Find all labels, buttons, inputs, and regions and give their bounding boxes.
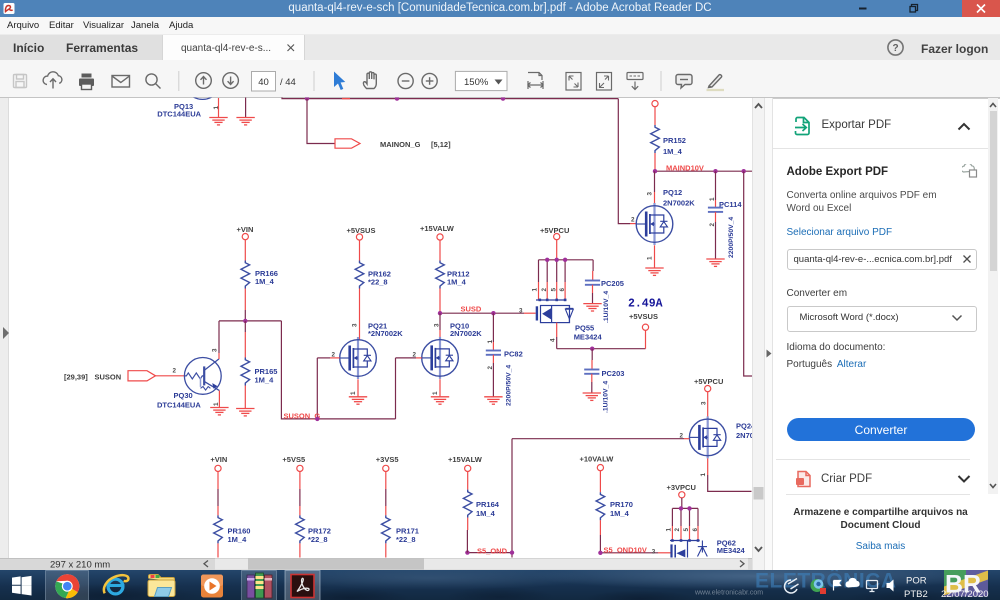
transistor PQ62 ME3424 (clipped at bottom) [665,528,745,558]
file input [787,249,977,270]
svg-text:PC205: PC205 [601,279,624,288]
power +5VPCU node (lower) [694,377,723,392]
wire MAINON_G branch [307,99,335,144]
zoom box [455,71,507,90]
minus circle [398,73,413,88]
window title bar [0,0,1000,17]
wire to ground [245,98,247,118]
fullscreen icon [597,73,612,91]
wire [217,472,219,516]
svg-text:S5_OND: S5_OND [477,546,508,555]
tray icons [785,577,894,593]
svg-text:*2N7002K: *2N7002K [368,329,403,338]
svg-text:22/07/2020: 22/07/2020 [941,589,989,600]
svg-text:[29,39]: [29,39] [64,372,88,381]
wire net S5_OND10V [600,545,671,555]
menu bar [0,17,1000,35]
wire [439,313,441,340]
svg-text:PR170: PR170 [610,500,633,509]
Criar PDF row [795,470,813,488]
svg-text:2N7002K: 2N7002K [663,199,695,208]
svg-text:PTB2: PTB2 [904,589,928,600]
transistor PQ24 2N7002K [680,416,769,476]
svg-text:+15VALW: +15VALW [448,455,483,464]
resistor PR172 *22_8 [296,515,331,543]
wire [244,386,246,409]
node junction [679,506,683,510]
wire net MAIND10V [655,163,753,172]
svg-text:1M_4: 1M_4 [663,147,683,156]
svg-text:1: 1 [647,256,654,260]
svg-text:1: 1 [700,473,707,477]
transistor PQ12 2N7002K [631,171,695,268]
scrolling mode icon [627,73,643,80]
wire net SUSD [440,304,536,314]
wire [439,240,441,260]
footer [773,506,989,533]
folder [148,574,175,596]
transistor PQ21 *2N7002K [332,321,404,397]
svg-text:3: 3 [212,348,219,352]
search [146,74,157,85]
wire [599,520,601,553]
node junction [598,551,602,555]
printer [79,74,94,90]
resistor PR160 1M_4 [214,515,251,543]
svg-text:PQ30: PQ30 [174,391,193,400]
svg-text:1: 1 [213,106,220,110]
wire [156,368,185,376]
svg-text:+5VS5: +5VS5 [282,455,305,464]
capacitor PC205 .1U/10V_4 [585,260,624,323]
svg-text:3: 3 [652,548,656,555]
svg-text:1M_4: 1M_4 [610,509,630,518]
save (disabled) [14,75,27,88]
svg-text:6: 6 [692,528,699,532]
power +15VALW node [420,224,455,240]
svg-text:2N7002K: 2N7002K [450,329,482,338]
Exportar PDF header [794,116,816,138]
wire PQ12 gate [618,99,636,224]
node junction [305,96,309,100]
right panel [773,98,1000,570]
ground (PQ30 emitter) [210,408,228,415]
svg-text:PQ12: PQ12 [663,188,682,197]
wire PQ21 gate [317,357,339,359]
svg-text:[5,12]: [5,12] [431,140,451,149]
ground (PQ13 emitter) [209,98,227,125]
node junction [510,550,514,554]
svg-text:5: 5 [551,288,558,292]
svg-text:PR164: PR164 [476,500,500,509]
node SUSON input port [64,371,156,382]
node junction [555,258,559,262]
select pointer [334,72,345,91]
dropdown [787,306,977,332]
svg-text:+15VALW: +15VALW [420,224,455,233]
svg-text:+5VPCU: +5VPCU [694,377,723,386]
wire [299,543,301,557]
node junction [243,319,247,323]
start [12,575,32,595]
Converter button [787,418,975,442]
svg-text:+5VSUS: +5VSUS [629,312,658,321]
svg-text:PQ55: PQ55 [575,324,594,333]
power +5VPCU node [540,226,569,240]
svg-text:1M_4: 1M_4 [255,277,275,286]
wire [244,240,246,261]
hand [363,72,376,89]
node junction [713,169,717,173]
wire [700,392,707,417]
svg-text:1: 1 [665,528,672,532]
resistor PR166 1M_4 [241,261,278,289]
wire [556,240,558,260]
power +VIN node [237,225,254,240]
svg-text:1: 1 [350,391,357,395]
transistor PQ55 ME3424 [532,288,603,349]
svg-text:+3VPCU: +3VPCU [667,483,696,492]
cloud upload [43,72,62,85]
svg-text:2: 2 [631,217,635,224]
svg-text:6: 6 [559,288,566,292]
plus circle [422,73,437,88]
svg-text:ME3424: ME3424 [717,546,746,555]
ground [236,118,254,125]
ground (PC114) [706,259,724,266]
wire [654,107,656,125]
wire [359,289,361,340]
chrome [55,574,79,598]
transistor PQ10 2N7002K [413,321,483,397]
toolbar [0,60,1000,98]
svg-text:5: 5 [683,528,690,532]
wire net S5_OND [467,546,512,555]
wire [654,153,656,171]
svg-text:3: 3 [434,323,441,327]
page width icon [528,73,542,81]
resistor PR165 1M_4 [241,358,277,386]
svg-text:2: 2 [173,368,177,375]
winrar [247,573,272,598]
svg-text:1: 1 [432,391,439,395]
svg-text:MAINON_G: MAINON_G [380,140,421,149]
ground (PC82) [484,397,502,404]
wire [439,289,441,314]
svg-text:3: 3 [519,308,523,315]
svg-text:.1U/10V_4: .1U/10V_4 [603,291,610,323]
wire [299,472,301,516]
svg-text:1M_4: 1M_4 [476,509,496,518]
wire [385,543,387,557]
transistor PQ30 DTC144EUA [157,348,221,409]
ground (PC205) [583,304,601,311]
highlighter [709,75,722,88]
svg-text:3: 3 [700,401,707,405]
svg-text:*22_8: *22_8 [308,535,328,544]
svg-text:ME3424: ME3424 [574,333,603,342]
app buttons [46,570,89,600]
node junction [315,417,319,421]
svg-text:SUSON: SUSON [95,372,122,381]
svg-text:+10VALW: +10VALW [580,454,615,463]
ground (PQ10 source) [431,397,449,404]
resistor PR171 *22_8 [382,515,419,543]
svg-text:3: 3 [647,192,654,196]
svg-text:2: 2 [674,528,681,532]
svg-text:+5VSUS: +5VSUS [347,226,376,235]
wire PQ62 supply bus [672,498,698,540]
wire [217,543,219,557]
ground (PQ21 source) [349,397,367,404]
svg-text:*22_8: *22_8 [368,278,388,287]
svg-text:+3VS5: +3VS5 [376,455,399,464]
wire PQ10 gate [396,357,422,359]
node junction [687,506,691,510]
svg-text:2200P/50V_4: 2200P/50V_4 [506,365,513,406]
node junction [563,258,567,262]
svg-text:PC82: PC82 [504,349,523,358]
svg-text:+VIN: +VIN [237,225,254,234]
Adobe Export PDF block [787,166,889,178]
ground (PR165) [236,409,254,416]
transistor PQ13 DTC144EUA (clipped at top) [157,63,221,119]
svg-text:2200P/50V_4: 2200P/50V_4 [728,217,735,258]
svg-text:1: 1 [532,288,539,292]
wire [359,240,361,260]
taskbar [0,570,1000,600]
svg-text:4: 4 [550,338,557,342]
svg-text:1: 1 [709,197,716,201]
node junction [491,311,495,315]
svg-text:DTC144EUA: DTC144EUA [157,400,201,409]
power +VIN node (lower) [210,455,227,472]
envelope [112,76,130,88]
capacitor PC203 .1U/10V_4 [584,349,624,413]
node junction [653,169,657,173]
svg-text:SUSD: SUSD [461,304,482,313]
svg-text:2: 2 [541,288,548,292]
power +3VPCU node [667,483,696,498]
power +12V node (PR152 top) [652,101,658,107]
resistor PR170 1M_4 [596,492,633,520]
svg-text:1M_4: 1M_4 [228,535,248,544]
power +5VSUS node [347,226,376,240]
power +10VALW node [580,454,615,470]
node junction [395,96,399,100]
wire drain bus [557,348,646,350]
wire [467,472,469,490]
IE [104,575,128,594]
sep [660,71,662,91]
svg-text:.1U/10V_4: .1U/10V_4 [603,381,610,413]
svg-text:2.49A: 2.49A [628,298,663,311]
resistor PR112 1M_4 [436,261,470,289]
node junction [742,169,746,173]
svg-text:1M_4: 1M_4 [255,375,275,384]
BR logo [944,558,991,598]
capacitor PC114 2200P/50V_4 [708,171,742,259]
svg-text:*22_8: *22_8 [396,535,416,544]
comment bubble [676,75,692,89]
resistor PR162 *22_8 [355,261,391,289]
sep [178,71,180,91]
node junction [465,550,469,554]
svg-text:297 x 210 mm: 297 x 210 mm [50,559,110,570]
svg-text:2: 2 [709,223,716,227]
svg-text:www.eletronicabr.com: www.eletronicabr.com [694,589,763,596]
power +5VS5 node [282,455,305,472]
wire PQ24 source [708,458,752,491]
svg-text:PR152: PR152 [663,136,686,145]
svg-text:?: ? [892,43,898,54]
page up/down circles [196,73,212,89]
document area [0,98,752,558]
wire [385,472,387,516]
wire to right edge [744,171,753,376]
power +15VALW node (lower) [448,455,483,472]
svg-text:S5_OND10V: S5_OND10V [604,545,647,554]
wire PQ24 gate [512,439,689,558]
resistor PR164 1M_4 [463,490,499,518]
svg-text:3: 3 [352,323,359,327]
wire MAINON top bus [282,98,618,99]
fit page icon [566,73,581,91]
power +5VSUS node [629,312,658,349]
wire PQ30 collector [218,321,220,353]
wire [244,289,246,321]
svg-text:SUSON_G: SUSON_G [284,412,321,421]
resistor PR152 1M_4 [651,125,686,156]
wire PQ55 supply bus [539,260,594,300]
wire [244,321,246,358]
page box [252,72,276,92]
power +3VS5 node [376,455,399,472]
svg-text:POR: POR [906,575,927,586]
node junction [501,96,505,100]
svg-text:PC114: PC114 [719,200,742,209]
tab strip [0,35,1000,61]
node MAINON_G output port [335,139,451,149]
wire net SUSON_G [281,321,395,421]
svg-text:DTC144EUA: DTC144EUA [157,109,201,118]
wire [599,471,601,493]
wire bus [219,320,281,322]
node junction [438,311,442,315]
acrobat [291,574,314,597]
ground (PQ12 source) [645,268,663,275]
ground (PC203) [583,393,601,400]
capacitor PC82 2200P/50V_4 [486,313,523,406]
svg-text:2: 2 [487,366,494,370]
wire [466,518,468,553]
svg-text:MAIND10V: MAIND10V [666,163,704,172]
svg-text:1: 1 [487,340,494,344]
sep [313,71,315,91]
svg-text:+VIN: +VIN [210,455,227,464]
node junction [590,347,594,351]
wmp [201,574,223,597]
svg-text:1M_4: 1M_4 [447,278,467,287]
panel scrollbar [988,98,998,494]
node junction [545,258,549,262]
svg-text:PC203: PC203 [602,369,625,378]
